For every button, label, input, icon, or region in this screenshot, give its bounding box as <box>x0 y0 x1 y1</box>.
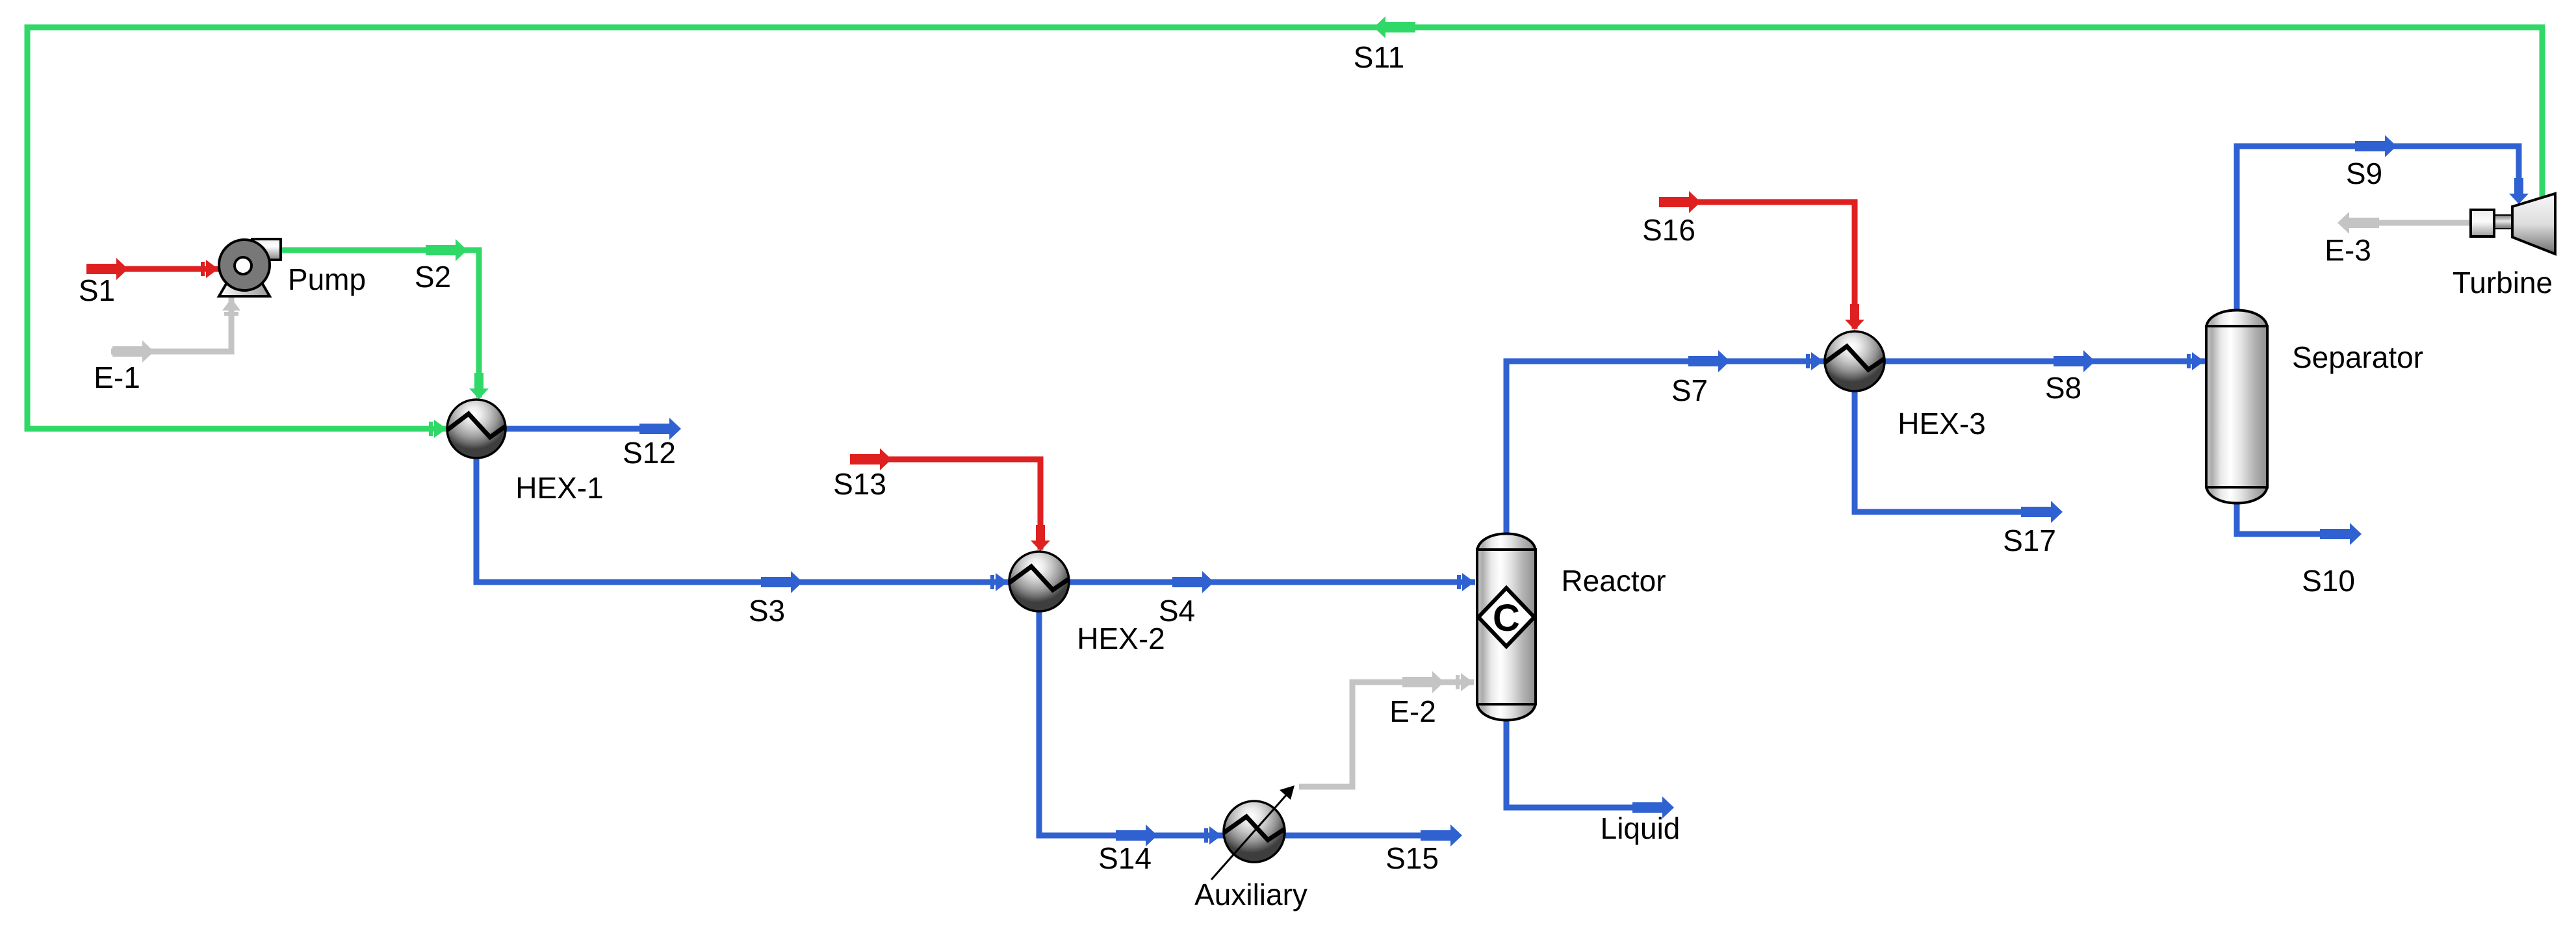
turbine Turbine <box>2471 194 2555 254</box>
heater Auxiliary <box>1211 785 1294 880</box>
svg-text:Auxiliary: Auxiliary <box>1194 878 1307 911</box>
svg-text:S7: S7 <box>1671 374 1708 407</box>
svg-text:S16: S16 <box>1642 213 1695 247</box>
stream S11 (green recycle wire) <box>27 16 2542 438</box>
stream S7 (blue wire Reactor to HEX-3) <box>1506 350 1824 533</box>
svg-text:S1: S1 <box>79 274 115 307</box>
stream S16 (red wire into HEX-3) <box>1659 191 1864 330</box>
separator Separator <box>2206 311 2267 503</box>
stream S10 (blue wire out of Separator bottom) <box>2237 504 2362 545</box>
stream S14 (blue wire HEX-2 to Auxiliary) <box>1039 611 1226 846</box>
label HEX-1 <box>515 471 603 505</box>
svg-text:C: C <box>1493 597 1520 639</box>
label Auxiliary <box>1194 878 1307 911</box>
label S16 <box>1642 213 1695 247</box>
svg-text:E-1: E-1 <box>94 361 140 394</box>
label HEX-2 <box>1077 622 1165 655</box>
label Liquid <box>1601 811 1681 845</box>
stream S17 (blue wire out of HEX-3 bottom) <box>1855 391 2063 523</box>
reactor Reactor <box>1477 534 1536 720</box>
svg-text:S11: S11 <box>1354 40 1404 74</box>
stream S4 (blue wire HEX-2 to Reactor) <box>1069 571 1475 593</box>
stream S13 (red wire into HEX-2) <box>850 448 1050 551</box>
stream S2 (green wire pump to HEX-1) <box>281 239 489 399</box>
svg-text:E-2: E-2 <box>1389 694 1436 728</box>
label S4 <box>1159 594 1195 628</box>
svg-text:S15: S15 <box>1385 841 1439 875</box>
svg-text:S8: S8 <box>2045 371 2081 405</box>
stream S1 (red feed wire) <box>86 258 219 280</box>
stream S9 (blue wire Separator to Turbine) <box>2237 135 2529 311</box>
svg-text:HEX-1: HEX-1 <box>515 471 603 505</box>
stream S8 (blue wire HEX-3 to Separator) <box>1885 350 2205 372</box>
stream S12 (blue wire out of HEX-1) <box>506 418 681 440</box>
energy stream E-2 (gray wire Auxiliary to Reactor) <box>1299 671 1474 787</box>
label E-3 <box>2325 233 2371 267</box>
label S17 <box>2003 524 2056 557</box>
svg-text:S9: S9 <box>2346 157 2382 190</box>
label S11 <box>1354 40 1404 74</box>
label S9 <box>2346 157 2382 190</box>
label S13 <box>833 467 886 501</box>
svg-text:HEX-2: HEX-2 <box>1077 622 1165 655</box>
label S1 <box>79 274 115 307</box>
label S15 <box>1385 841 1439 875</box>
svg-text:S12: S12 <box>623 436 676 470</box>
stream Liquid (blue wire out of Reactor bottom) <box>1506 720 1674 819</box>
label S10 <box>2302 564 2355 598</box>
energy stream E-1 (gray wire) <box>111 298 240 363</box>
svg-text:S2: S2 <box>415 260 451 294</box>
svg-text:Separator: Separator <box>2292 340 2423 374</box>
label Pump <box>288 262 366 296</box>
heat exchanger HEX-1 <box>447 400 506 458</box>
label E-1 <box>94 361 140 394</box>
stream S3 (blue wire HEX-1 to HEX-2) <box>476 457 1009 593</box>
svg-text:S3: S3 <box>749 594 785 628</box>
label Reactor <box>1561 564 1666 598</box>
svg-text:S17: S17 <box>2003 524 2056 557</box>
svg-text:S10: S10 <box>2302 564 2355 598</box>
label S7 <box>1671 374 1708 407</box>
label S8 <box>2045 371 2081 405</box>
label Turbine <box>2453 266 2553 299</box>
svg-text:S14: S14 <box>1098 841 1152 875</box>
svg-text:Turbine: Turbine <box>2453 266 2553 299</box>
svg-text:Pump: Pump <box>288 262 366 296</box>
stream S15 (blue wire out of Auxiliary) <box>1284 824 1462 846</box>
label Separator <box>2292 340 2423 374</box>
label S12 <box>623 436 676 470</box>
label S2 <box>415 260 451 294</box>
label HEX-3 <box>1898 407 1985 440</box>
svg-text:Liquid: Liquid <box>1601 811 1681 845</box>
heat exchanger HEX-3 <box>1825 331 1885 391</box>
heat exchanger HEX-2 <box>1009 552 1069 611</box>
label S3 <box>749 594 785 628</box>
svg-text:HEX-3: HEX-3 <box>1898 407 1985 440</box>
label S14 <box>1098 841 1152 875</box>
svg-text:Reactor: Reactor <box>1561 564 1666 598</box>
energy stream E-3 (gray wire out of Turbine) <box>2338 212 2471 234</box>
label E-2 <box>1389 694 1436 728</box>
svg-text:E-3: E-3 <box>2325 233 2371 267</box>
pump Pump <box>219 239 281 296</box>
svg-text:S13: S13 <box>833 467 886 501</box>
